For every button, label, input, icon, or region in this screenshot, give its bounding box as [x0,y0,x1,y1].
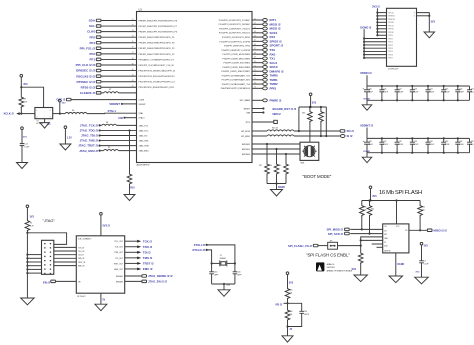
svg-text:32: 32 [132,24,134,26]
svg-text:R25: R25 [289,290,292,292]
svg-text:DR0SEC /2 /2: DR0SEC /2 /2 [76,69,95,73]
svg-text:63: 63 [254,31,256,33]
svg-text:JTAG_EN /2 /2: JTAG_EN /2 /2 [148,280,167,284]
wire U1 NMI node [247,111,282,116]
svg-text:60: 60 [254,18,256,20]
wire XTALI branch [207,245,235,264]
resistor R19 BMODE0 pulldown [278,153,288,184]
resistor R13 boot pullup [302,107,312,142]
svg-text:0.1UF: 0.1UF [399,92,404,94]
capacitor C33 [410,138,419,152]
wire oscillator output node [53,113,65,115]
svg-text:R9: R9 [108,147,110,149]
capacitor C7 0.1uF [415,261,428,278]
svg-text:BOARD_RST /2 /2: BOARD_RST /2 /2 [273,107,297,111]
svg-text:EMU_IN: EMU_IN [78,266,85,268]
svg-text:DGND: DGND [278,187,285,189]
wire U2 output TRST /2 [114,262,154,266]
svg-text:VDDINT: VDDINT [139,104,147,106]
ground C12 [17,146,28,169]
svg-text:PG9/PPI_D9/SPORT1_TFS1: PG9/PPI_D9/SPORT1_TFS1 [224,46,251,48]
svg-text:TCK /2: TCK /2 [143,239,153,243]
svg-text:31: 31 [132,19,134,21]
svg-text:R3: R3 [24,99,26,101]
wire TDO pulldown tap [128,129,130,173]
svg-text:JTAG_TRST: JTAG_TRST [139,145,151,148]
svg-text:U2 74LVC: U2 74LVC [77,296,86,298]
svg-text:3V3 /2: 3V3 /2 [372,4,380,8]
capacitor C12 0.1uF [20,144,30,149]
wire U1 left pin row 12 net DT0SEC /2 /2 [76,80,136,84]
svg-text:ADSP-BF537: ADSP-BF537 [137,163,151,166]
svg-text:TMS_OUT: TMS_OUT [114,252,123,254]
svg-text:PG2/PPI_D2/TMR6/UART_TX1: PG2/PPI_D2/TMR6/UART_TX1 [222,74,251,77]
svg-text:R15 33: R15 33 [272,128,278,130]
svg-text:PPIFS2: PPIFS2 [388,32,394,34]
power +3.3V SPI flash [369,186,377,201]
svg-text:SCK: SCK [384,246,388,248]
svg-text:TDI_IN: TDI_IN [78,255,84,257]
svg-text:PG8/PPI_D8/SPORT1_DR1PRI: PG8/PPI_D8/SPORT1_DR1PRI [222,50,251,52]
svg-text:VDDINT: VDDINT [109,102,120,106]
wire U1 left pin row 5 net PF4 [89,41,136,45]
svg-text:PF11/SPORT0_RFS0/PPI8/GPIO_PF1: PF11/SPORT0_RFS0/PPI8/GPIO_PF11 [139,87,175,89]
svg-text:EMU /2: EMU /2 [143,267,153,271]
svg-text:73: 73 [254,74,256,76]
wire U1 SPI SO line with resistor R15 [241,128,340,133]
svg-text:SPISEL: SPISEL [388,22,394,24]
power +3.3V divider [286,272,294,288]
svg-text:M25P16: M25P16 [384,251,390,253]
svg-text:3: 3 [50,117,51,119]
ground VDD33 bank [362,100,372,110]
svg-text:R18: R18 [269,165,272,167]
J1 pin names [388,12,416,59]
svg-text:C35: C35 [445,141,448,143]
svg-text:3V3: 3V3 [23,137,28,139]
wire CLKOUT row to U1 [56,98,136,102]
svg-text:BMODE0: BMODE0 [242,154,250,156]
wire U1 left pin row 3 net CLK0 [87,30,136,34]
svg-text:3V3 /2: 3V3 /2 [102,223,110,227]
svg-text:PPI3: PPI3 [270,86,277,90]
svg-text:JTAG_TCK /2: JTAG_TCK /2 [80,124,99,128]
resistor R10 10K pulldown [127,173,135,190]
svg-text:SW1: SW1 [300,162,304,164]
power +3.3V boot mode [309,93,316,107]
svg-text:71: 71 [254,65,256,67]
svg-text:0.1UF: 0.1UF [399,144,404,146]
svg-text:"BOOT MODE": "BOOT MODE" [303,174,332,179]
svg-text:TMS /2: TMS /2 [143,256,153,260]
svg-text:PF15/PPI_CLK/TMRCLK/EXT_CLK_IN: PF15/PPI_CLK/TMRCLK/EXT_CLK_IN [139,65,174,67]
svg-text:PF2/SPI_SSEL7/TMR7/PPI12/GPIO_: PF2/SPI_SSEL7/TMR7/PPI12/GPIO_P2 [139,54,176,56]
wire U1 JTAG_TMS pin row [80,139,149,143]
svg-text:R19: R19 [278,165,281,167]
ground U2 [95,293,107,311]
wire U1 right pin MISO /2 [219,27,281,31]
svg-text:R26: R26 [289,311,292,313]
svg-text:3V3: 3V3 [372,195,377,198]
svg-text:SO: SO [405,230,408,232]
svg-text:TCK_OUT: TCK_OUT [115,247,124,249]
resistor R17 BMODE2 pulldown [259,143,269,184]
svg-text:PF7/SPI_SSEL2/PPI_FS2/TMR4/GPI: PF7/SPI_SSEL2/PPI_FS2/TMR4/GPIO_P7 [139,26,178,28]
svg-text:3V3: 3V3 [424,245,429,247]
svg-text:OE: OE [78,281,81,283]
svg-text:SPI_MISO: SPI_MISO [241,136,250,138]
capacitor C31 [379,138,388,152]
svg-text:RTXI: RTXI [246,122,251,124]
wire U1 left pin row 8 net PF1 [89,58,136,62]
svg-text:1.2V: 1.2V [67,136,72,139]
svg-text:PF4: PF4 [89,41,95,45]
capacitor C35 [441,138,450,152]
power +3.3V flash decoupling [420,242,428,260]
svg-text:CLKBUF /2: CLKBUF /2 [80,91,95,95]
svg-text:42: 42 [132,80,134,82]
svg-text:0.1UF: 0.1UF [459,92,464,94]
node XTALI label [194,243,208,247]
wire P1 right pins to U2 [54,247,77,265]
wire U1 SPI SI line with resistor R16 [241,135,341,138]
wire U2 output TCK /2 [114,239,152,243]
wire flash HOLD stub [372,243,383,245]
svg-text:PG15/PPI_D15/SPORT1_DT1SEC: PG15/PPI_D15/SPORT1_DT1SEC [219,20,251,22]
svg-text:C26: C26 [459,88,462,90]
svg-text:C41: C41 [237,272,240,274]
op-amp P1 JTAG header body [42,240,54,274]
svg-text:TDI /2: TDI /2 [143,250,151,254]
capacitor C40 18pF [209,263,219,284]
svg-text:0.1UF: 0.1UF [429,144,434,146]
capacitor C50 parallel [288,303,309,326]
power +3.3V decoupling column [21,127,28,144]
wire U1 JTAG_EMU pin row [79,147,149,153]
wire U1 JTAG_TCK pin row [80,122,149,128]
svg-text:JTAG_TDI: JTAG_TDI [139,134,148,137]
wire U1 right pin RX1 [222,35,276,39]
svg-text:JTAG_TDO: JTAG_TDO [139,129,149,132]
ground C7 [415,277,429,284]
wire R3 to CLKIN net [20,107,22,115]
ground JTAG bus [21,298,35,305]
resistor R4 series 33 ohm [65,110,87,114]
svg-text:JTAG_TDO /2: JTAG_TDO /2 [80,129,99,133]
svg-text:JTAG_TRST /2: JTAG_TRST /2 [78,144,98,148]
svg-text:DGND /2: DGND /2 [360,26,371,30]
node SO terminal [340,129,354,133]
wire U1 left pin row 4 net PF5 [89,35,136,39]
op-amp U1 main processor IC body [137,7,253,166]
svg-text:+: + [362,139,364,143]
wire boot mode top bus [299,106,326,108]
svg-text:10UF: 10UF [369,144,373,146]
svg-text:PPIFS1: PPIFS1 [388,29,394,31]
svg-text:16 Mb SPI FLASH: 16 Mb SPI FLASH [379,190,422,196]
wire U1 right pin TX1 [223,57,276,61]
wire U1 JTAG_TDO pin row [80,129,149,133]
wire U1 VDDINT pin [109,102,136,106]
svg-text:XTAL1: XTAL1 [108,109,117,113]
wire boot bus left drop to SO net [298,107,300,132]
svg-text:TDO /2: TDO /2 [143,245,153,249]
svg-text:JP1: JP1 [330,240,333,242]
svg-text:PF13/SPORT0_RSCLK0/PPI10/GPIO1: PF13/SPORT0_RSCLK0/PPI10/GPIO13 [139,76,176,78]
svg-text:38: 38 [132,58,134,60]
svg-text:TDI_OUT: TDI_OUT [115,258,124,260]
svg-text:PPI_FS1 /2: PPI_FS1 /2 [80,46,96,50]
power +3.3V JTAG pullup [26,205,34,220]
wire U1 right pin TX0 [222,48,276,52]
power 1.2V tie node [64,126,72,144]
svg-text:JTAG_TMS: JTAG_TMS [139,139,149,142]
svg-text:R13: R13 [302,113,305,115]
wire U1 left pin row 11 net RSCLK0 /2 /2 [76,74,136,78]
U1 left pin names [139,20,178,119]
svg-text:JTAG_EMU: JTAG_EMU [139,150,150,153]
svg-text:XCLK /2: XCLK /2 [4,112,15,116]
wire JTAG ground bus [26,231,28,299]
wire U1 RTXI no-connect stub [246,120,278,124]
svg-text:3V3: 3V3 [289,281,294,284]
svg-text:TRST_OUT: TRST_OUT [114,263,124,265]
power +3.3V U2 [100,213,111,236]
svg-text:76: 76 [254,87,256,89]
resistor R12 on U1 pin CLKBUF row 14 [80,89,137,95]
svg-text:RSCLK0 /2 /2: RSCLK0 /2 /2 [76,74,95,78]
svg-text:EXT_WAKE: EXT_WAKE [240,99,251,102]
svg-text:R20: R20 [363,206,366,208]
wire U1 BMODE2 to boot switch [242,144,301,146]
wire U1 left pin row 10 net DR0SEC /2 /2 [76,69,136,73]
svg-text:C12: C12 [24,144,27,146]
svg-text:SI /2: SI /2 [347,134,353,138]
wire P1 left pins to ground bus [26,254,41,275]
svg-text:TCK_IN: TCK_IN [78,247,85,249]
svg-text:PPID3: PPID3 [388,45,393,47]
svg-text:3V3: 3V3 [312,102,317,105]
capacitor C32 [395,138,404,152]
svg-text:PH0/TMRCLK/PPI_FS3/TACLK0: PH0/TMRCLK/PPI_FS3/TACLK0 [221,87,251,90]
svg-text:67: 67 [254,48,256,50]
svg-text:BMODE1: BMODE1 [242,149,250,151]
transistor SW1 boot mode rotary switch [300,142,319,164]
resistor R14 boot pullup [319,107,326,137]
svg-text:PPID5: PPID5 [388,51,393,53]
resistor R25 divider top [285,288,293,310]
op-amp U2 JTAG buffer body [76,236,124,298]
node SPI_FLASH_CS input [288,244,328,248]
svg-text:SPI_MOSI /2: SPI_MOSI /2 [327,227,344,231]
svg-text:3V3: 3V3 [415,272,420,274]
svg-text:10K: 10K [289,314,293,316]
svg-text:C50: C50 [304,311,307,313]
wire U1 BMODE0 to boot switch [242,154,301,156]
svg-text:34: 34 [132,35,134,37]
resistor R22 pullup MISO [418,201,426,231]
svg-text:U1: U1 [139,7,143,11]
svg-text:0.1UF: 0.1UF [24,147,30,149]
svg-text:C20: C20 [369,88,372,90]
svg-text:R10: R10 [130,187,135,190]
svg-text:SDA: SDA [89,19,96,23]
crystal Y1 25MHz [211,255,236,266]
node XCLK input terminal [4,112,35,116]
ground crystal [218,290,230,297]
svg-text:72: 72 [254,70,256,72]
wire U1 RESET output node [244,107,297,111]
svg-text:PG10/PPI_D10/SPORT1_DT1PRI: PG10/PPI_D10/SPORT1_DT1PRI [220,41,251,43]
svg-text:69: 69 [254,57,256,59]
svg-text:SENSE1: SENSE1 [116,276,123,278]
svg-text:TRST_IN: TRST_IN [78,262,86,264]
svg-text:R14: R14 [322,113,325,115]
svg-text:ANALOG: ANALOG [327,263,335,266]
svg-text:PG13/PPI_D13/SPORT1_TSCLK1: PG13/PPI_D13/SPORT1_TSCLK1 [219,28,251,30]
wire U2 sense output 1 [116,274,173,278]
svg-text:PG3/PPI_D3/SPI_SSEL2/TMR7: PG3/PPI_D3/SPI_SSEL2/TMR7 [221,71,250,73]
svg-text:PG4/PPI_D4/SPI_SSEL/TMR0: PG4/PPI_D4/SPI_SSEL/TMR0 [223,67,251,69]
svg-text:VR /2: VR /2 [275,302,282,306]
svg-text:G: G [414,16,416,18]
svg-text:3V3: 3V3 [47,124,52,126]
svg-text:TRST /2: TRST /2 [143,262,154,266]
wire U1 right pin RX0 [223,52,276,56]
svg-text:CLKIN: CLKIN [139,100,145,102]
svg-text:2: 2 [36,117,37,119]
svg-text:C25: C25 [445,88,448,90]
svg-text:10K: 10K [422,209,426,211]
svg-text:XTALI /2: XTALI /2 [194,243,206,247]
wire J1 bus B DGND [360,26,386,59]
svg-text:TDO_OUT: TDO_OUT [114,241,123,243]
svg-text:0.1UF: 0.1UF [383,92,388,94]
capacitor C25 [441,86,450,100]
svg-text:PPI_CLK /2 /2: PPI_CLK /2 /2 [76,63,96,67]
capacitor C36 [455,138,464,152]
svg-text:3V: 3V [290,329,293,331]
svg-text:PPID6: PPID6 [388,54,393,56]
svg-text:EN /2: EN /2 [43,281,50,285]
resistor R18 BMODE1 pulldown [269,148,279,184]
wire U1 left pin row 9 net PPI_CLK /2 /2 [76,63,137,67]
resistor R1 4.7K JTAG [25,220,34,232]
svg-text:PF1: PF1 [89,58,95,62]
svg-text:74: 74 [254,78,256,80]
svg-text:SO: SO [384,230,387,232]
svg-text:R8: R8 [106,122,108,124]
svg-text:PF6/SPI_SSEL1/PPI_FS1/TMR3/GPI: PF6/SPI_SSEL1/PPI_FS1/TMR3/GPIO_P6 [139,32,178,34]
svg-text:AHEAD OF WHATS POSSIBLE: AHEAD OF WHATS POSSIBLE [327,269,353,272]
svg-text:SENSE2: SENSE2 [116,281,123,283]
svg-text:39: 39 [132,63,134,65]
svg-text:3V3: 3V3 [23,83,28,86]
svg-text:GND: GND [226,284,231,286]
svg-text:1: 1 [36,110,37,112]
svg-text:PG14/PPI_D14/SPORT1_DR1SEC: PG14/PPI_D14/SPORT1_DR1SEC [219,24,251,26]
svg-text:3V3: 3V3 [431,21,436,24]
svg-text:TDO_IN: TDO_IN [78,251,85,253]
svg-text:4.7K: 4.7K [24,102,28,104]
wire U1 right pin SCL0 [224,61,278,65]
svg-text:0.1UF: 0.1UF [414,92,419,94]
svg-text:PG12/PPI_D12/SPORT1_RSCLK1: PG12/PPI_D12/SPORT1_RSCLK1 [219,33,251,35]
svg-text:DT0SEC /2 /2: DT0SEC /2 /2 [76,80,95,84]
svg-text:C31: C31 [383,141,386,143]
wire R1 to P1 pin 2 [26,232,66,245]
svg-text:PG5/PPI_D5/SPI_SCK/TMR1: PG5/PPI_D5/SPI_SCK/TMR1 [224,63,251,65]
wire VDD33 top bus [367,85,470,87]
svg-text:PG0/PPI_D0/TACI0/UART_TX0: PG0/PPI_D0/TACI0/UART_TX0 [222,83,251,86]
svg-text:C7: C7 [424,261,426,263]
svg-text:R21: R21 [371,208,374,210]
wire flash ground pin [396,253,405,276]
svg-text:PPICLK: PPICLK [388,25,395,27]
wire flash NC stub [377,246,383,248]
wire U2 sense output 2 [116,280,167,284]
wire U1 right pin MOSI /2 [219,22,281,26]
node XTALO label [192,248,207,252]
svg-text:64: 64 [254,35,256,37]
svg-text:0.1UF: 0.1UF [383,144,388,146]
svg-text:68: 68 [254,52,256,54]
wire U1 PWRDN pin [240,98,282,102]
wire U1 left pin row 13 net RFS0 /2 /2 [81,85,137,89]
svg-text:C22: C22 [399,88,402,90]
svg-text:RFS0 /2 /2: RFS0 /2 /2 [81,85,96,89]
svg-text:V: V [414,12,416,14]
svg-text:JTAG_SENSE /2 /2: JTAG_SENSE /2 /2 [148,274,173,278]
svg-text:PPID7: PPID7 [388,58,393,60]
capacitor C30 [362,138,372,152]
svg-text:18PF: 18PF [214,275,219,277]
svg-text:SPIMOSI: SPIMOSI [388,19,395,21]
wire crystal ground bus [212,283,235,290]
node divider tap VREF [275,302,288,306]
capacitor C34 [426,138,435,152]
svg-text:+: + [362,86,364,90]
wire U1 left pin row 1 net SDA [89,19,137,23]
svg-text:R22: R22 [422,206,425,208]
svg-text:66: 66 [254,44,256,46]
svg-text:C23: C23 [414,88,417,90]
svg-text:PF14/SPORT0_DR0SEC/TACLK/PPI_1: PF14/SPORT0_DR0SEC/TACLK/PPI_10 [139,69,176,72]
ground 1.2V tie [60,144,71,150]
svg-text:R4: R4 [72,110,74,112]
svg-text:C30: C30 [369,141,372,143]
power +3.3V oscillator output pullup tap [59,99,67,113]
svg-text:C34: C34 [429,141,432,143]
svg-text:PF3/SPI_SSEL6/TMR0/PPI13/GPIO_: PF3/SPI_SSEL6/TMR0/PPI13/GPIO_P3 [139,48,176,50]
svg-text:R1: R1 [30,222,32,224]
capacitor C41 18pF [233,263,243,284]
svg-text:ICE_CONNECT: ICE_CONNECT [78,239,92,241]
svg-text:SCL: SCL [89,24,95,28]
svg-text:75: 75 [254,82,256,84]
power +3.3V node oscillator [20,74,28,96]
wire J1 bus A DVDD33 [372,4,387,36]
resistor JP1 shunt jumper [328,240,361,249]
svg-text:TMS_IN: TMS_IN [78,258,85,260]
svg-text:35: 35 [132,41,134,43]
svg-text:Y1: Y1 [220,255,222,257]
svg-text:R7: R7 [109,89,111,91]
wire XTALO branch [207,250,212,264]
op-amp J1 expansion connector body [387,8,417,70]
wire BMODE pulldown bus [267,182,286,189]
svg-text:C32: C32 [399,141,402,143]
